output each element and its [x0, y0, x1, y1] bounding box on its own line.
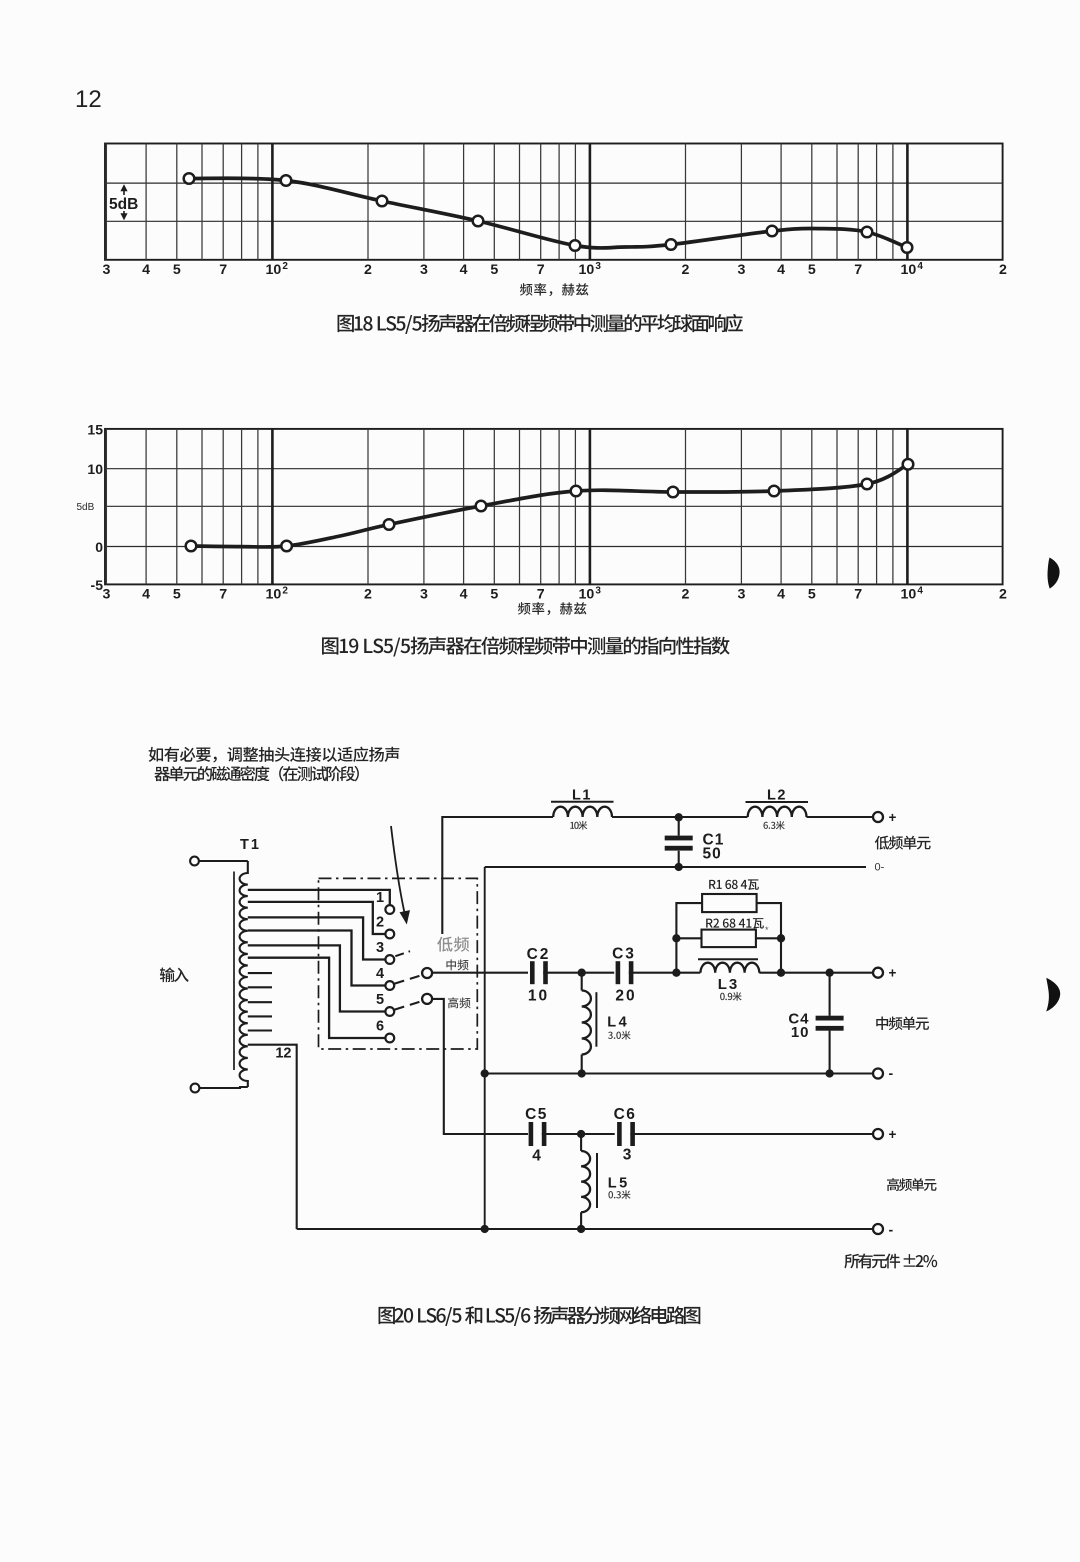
switch blade tap4 to mid contact (dashed) [395, 975, 422, 984]
R1 label R1 68 4瓦 [709, 879, 759, 890]
L1 core bar [551, 801, 614, 803]
junction C1 top [675, 813, 683, 821]
svg-text:4: 4 [376, 966, 384, 982]
svg-text:7: 7 [854, 262, 862, 278]
tweeter + terminal [873, 1129, 883, 1139]
svg-text:7: 7 [854, 587, 862, 603]
svg-text:6: 6 [376, 1019, 384, 1035]
svg-text:3: 3 [595, 261, 601, 272]
0- return rail [485, 866, 866, 868]
svg-text:-: - [889, 1065, 894, 1081]
svg-text:3: 3 [623, 1147, 632, 1164]
svg-text:2: 2 [282, 261, 288, 272]
label 低频单元 [875, 836, 931, 850]
svg-text:2: 2 [364, 262, 372, 278]
L4 value 3.0米 [608, 1031, 631, 1040]
annotation: adjust tap connections note (2 lines) [149, 747, 400, 763]
annotation arrow pointing to taps [391, 826, 405, 915]
wire woofer feed vertical (net 低频) [442, 817, 553, 934]
svg-text:5dB: 5dB [109, 196, 138, 213]
svg-text:10: 10 [901, 587, 917, 603]
capacitor C1 [678, 817, 680, 836]
switch blade tap5 to high contact (dashed) [395, 1001, 422, 1010]
svg-text:5: 5 [490, 587, 498, 603]
tweeter - terminal [873, 1224, 883, 1234]
inductor L3 [701, 963, 760, 973]
svg-text:10: 10 [901, 262, 917, 278]
svg-text:-: - [889, 1222, 894, 1238]
inductor L2 [748, 807, 807, 817]
resistor R1 [702, 894, 757, 912]
svg-text:4: 4 [142, 587, 150, 603]
svg-text:2: 2 [999, 587, 1007, 603]
wire L3 to C4 node and + terminal [759, 972, 873, 974]
svg-text:C2: C2 [527, 946, 551, 963]
svg-text:4: 4 [532, 1148, 541, 1165]
svg-text:3: 3 [102, 587, 110, 603]
L3 core bar [698, 958, 758, 960]
mid selector contact [422, 968, 432, 978]
wire tap 1 [248, 890, 390, 905]
mid return rail [485, 1073, 873, 1075]
svg-text:5: 5 [808, 262, 816, 278]
tolerance note 所有元件 ±2% [844, 1253, 937, 1268]
svg-text:12: 12 [275, 1046, 291, 1062]
svg-text:12: 12 [75, 86, 102, 113]
svg-text:5: 5 [173, 587, 181, 603]
R2 stubs [676, 937, 701, 939]
chart: figure 19 directivity index [77, 421, 1008, 656]
svg-text:+: + [889, 1127, 897, 1142]
L2 value 6.3米 [763, 821, 784, 830]
mid + terminal [873, 968, 883, 978]
wire C6 to tweeter + terminal [630, 1133, 873, 1135]
scan artifact crescent right of chart 19 [1048, 558, 1060, 589]
unused tap stubs [248, 973, 272, 1030]
svg-text:20: 20 [615, 988, 636, 1005]
svg-text:+: + [889, 810, 897, 825]
svg-text:3: 3 [102, 262, 110, 278]
inductor L1 [553, 807, 612, 817]
svg-text:10: 10 [266, 587, 282, 603]
tap terminal 1 [385, 905, 394, 914]
svg-text:4: 4 [460, 587, 468, 603]
wire tap 4 [248, 931, 386, 986]
svg-text:0-: 0- [875, 862, 885, 874]
svg-text:C6: C6 [614, 1106, 637, 1123]
svg-text:L4: L4 [607, 1015, 629, 1031]
svg-text:4: 4 [917, 586, 923, 597]
svg-text:5: 5 [173, 262, 181, 278]
wire C5 to C6 [542, 1133, 615, 1135]
caption figure 20 [379, 1306, 701, 1326]
svg-text:L3: L3 [718, 976, 740, 993]
capacitor C3 [616, 961, 621, 984]
svg-text:7: 7 [219, 262, 227, 278]
svg-text:10: 10 [579, 587, 595, 603]
junction L5 top [577, 1130, 585, 1138]
svg-text:5dB: 5dB [77, 502, 95, 513]
wire high contact down to tweeter line [432, 999, 528, 1134]
svg-text:4: 4 [142, 262, 150, 278]
wire tap 6 [248, 958, 386, 1038]
switch blade dash from tap 3 [395, 951, 410, 956]
wire C3 to L3 network [629, 972, 701, 974]
wire tap 5 [248, 945, 386, 1011]
svg-text:5: 5 [376, 992, 384, 1008]
svg-text:3: 3 [737, 262, 745, 278]
junction C4 bottom [825, 1069, 833, 1077]
woofer + terminal [873, 812, 883, 822]
svg-text:0: 0 [95, 539, 103, 555]
net label 低频 (woofer net, grey) [437, 937, 469, 952]
svg-text:4: 4 [917, 261, 923, 272]
svg-text:-5: -5 [91, 577, 104, 593]
junction bus bottom [481, 1225, 489, 1233]
high selector contact [422, 994, 432, 1004]
svg-text:+: + [889, 966, 897, 981]
svg-text:5: 5 [808, 587, 816, 603]
bottom return rail [297, 1228, 873, 1230]
junction L5 bottom [577, 1225, 585, 1233]
L5 value 0.3米 [608, 1190, 630, 1199]
wire mid contact to C2 [432, 972, 528, 974]
svg-text:10: 10 [528, 988, 549, 1005]
svg-text:L5: L5 [608, 1176, 630, 1192]
svg-text:2: 2 [682, 587, 690, 603]
svg-text:10: 10 [579, 262, 595, 278]
svg-text:L1: L1 [572, 788, 592, 804]
L5 core bar [596, 1153, 598, 1208]
svg-text:10: 10 [266, 262, 282, 278]
return bus vertical [484, 867, 486, 1229]
tap terminal 5 [385, 1007, 394, 1016]
svg-text:3: 3 [376, 940, 384, 956]
svg-text:10: 10 [87, 461, 103, 477]
svg-text:3: 3 [595, 586, 601, 597]
junction C4 top [825, 969, 833, 977]
svg-text:L2: L2 [767, 788, 787, 804]
net label 中频 [446, 959, 468, 970]
wire tap 2 [248, 902, 386, 934]
svg-text:2: 2 [999, 262, 1007, 278]
svg-text:2: 2 [682, 262, 690, 278]
junction L3 left [672, 969, 680, 977]
svg-text:7: 7 [219, 587, 227, 603]
svg-text:3: 3 [420, 262, 428, 278]
junction C1 bottom on 0- rail [675, 863, 683, 871]
net label 高频 [448, 997, 471, 1008]
wire L2 to woofer + terminal [807, 816, 874, 818]
junction L3 right [777, 969, 785, 977]
capacitor C5 [529, 1122, 534, 1146]
svg-text:5: 5 [490, 262, 498, 278]
tap terminal 4 [385, 981, 394, 990]
svg-text:T1: T1 [240, 837, 261, 853]
svg-text:7: 7 [537, 262, 545, 278]
transformer core bar [233, 872, 235, 1071]
svg-text:50: 50 [703, 846, 722, 863]
svg-text:15: 15 [87, 421, 103, 437]
chart: figure 18 mean spherical response [102, 144, 1007, 334]
R2 label R2 68 41瓦 [706, 918, 764, 929]
tap terminal 6 [385, 1034, 394, 1043]
wire tap 12 down to bottom rail [248, 1045, 297, 1229]
wire tap 3 [248, 917, 386, 959]
input terminal bottom [191, 1084, 200, 1093]
wire input bottom to winding [199, 1087, 247, 1088]
svg-text:*: * [765, 925, 769, 935]
svg-text:3: 3 [420, 587, 428, 603]
junction mid rail at bus [481, 1069, 489, 1077]
svg-text:7: 7 [537, 587, 545, 603]
capacitor C6 [617, 1122, 622, 1146]
R1 R2 parallel risers [676, 903, 702, 973]
input terminal top [190, 857, 199, 866]
wire L1 to C1 node [612, 816, 748, 818]
scan artifact crescent right of circuit [1046, 978, 1060, 1012]
L4 core bar [595, 992, 597, 1046]
capacitor C4 [829, 973, 831, 1016]
junction R2 left [672, 934, 680, 942]
wire input top to winding [199, 860, 248, 862]
svg-text:4: 4 [460, 262, 468, 278]
svg-text:10: 10 [791, 1024, 810, 1041]
svg-text:4: 4 [777, 587, 785, 603]
junction L4 bottom [578, 1069, 586, 1077]
junction L4 top [578, 969, 586, 977]
L1 value 10米 [570, 821, 587, 830]
inductor L4 [581, 973, 583, 991]
label 高频单元 [887, 1178, 937, 1191]
transformer winding [240, 861, 248, 1087]
capacitor C2 [530, 961, 535, 984]
inductor L5 [580, 1134, 582, 1151]
L2 core bar [746, 801, 809, 803]
junction R2 right [777, 934, 785, 942]
tap terminal 3 [385, 955, 394, 964]
resistor R2 [702, 930, 756, 948]
svg-text:2: 2 [364, 587, 372, 603]
svg-text:2: 2 [376, 915, 384, 931]
wire C2 to C3 [543, 972, 614, 974]
tap selector dash-dot box [319, 878, 478, 1049]
input label 输入 [160, 967, 189, 982]
svg-text:C3: C3 [612, 946, 636, 963]
svg-text:1: 1 [376, 890, 384, 906]
svg-text:4: 4 [777, 262, 785, 278]
tap terminal 2 [385, 930, 394, 939]
L3 value 0.9米 [720, 992, 742, 1001]
mid - terminal [873, 1069, 883, 1079]
label 中频单元 [876, 1016, 929, 1030]
svg-text:3: 3 [737, 587, 745, 603]
svg-text:C5: C5 [525, 1106, 548, 1123]
svg-text:2: 2 [282, 586, 288, 597]
